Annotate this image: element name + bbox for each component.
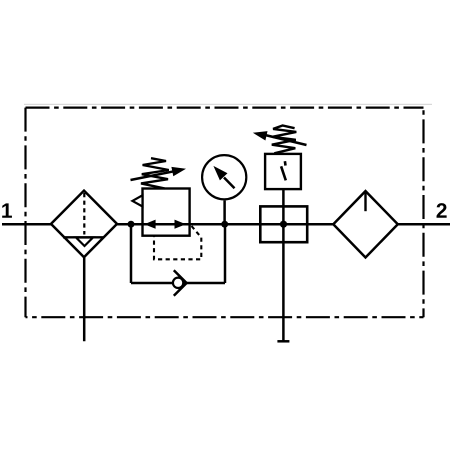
- regulator R1 vent triangle: [132, 195, 142, 206]
- check valve V1 ball: [173, 278, 183, 288]
- enclosure border left: [24, 108, 26, 318]
- regulator R1 flow arrow right: [175, 220, 186, 229]
- filter F1 separator chord: [63, 236, 104, 238]
- filter F1 separator triangle: [76, 238, 93, 247]
- enclosure border top shadow: [24, 103, 432, 105]
- filter F1 element dashed: [83, 193, 85, 235]
- wire regulator through to branch block: [143, 223, 261, 226]
- pressure switch S1 spring: [272, 126, 297, 154]
- wire port1 to filter: [2, 223, 51, 226]
- enclosure border bottom: [26, 316, 424, 318]
- regulator R1 adjustment arrow shaft: [131, 171, 175, 180]
- branch block body: [260, 206, 307, 242]
- bypass wire bottom: [131, 282, 225, 285]
- regulator R1 spring: [141, 158, 169, 188]
- pressure switch S1 adjustment arrow head: [253, 131, 268, 140]
- gauge G1 needle shaft: [224, 178, 235, 189]
- wire branch block to lubricator: [260, 223, 333, 226]
- bypass wire left down: [130, 224, 133, 283]
- enclosure border top: [26, 106, 424, 108]
- branch drain end bar: [277, 340, 289, 343]
- gauge G1 needle head: [213, 166, 227, 181]
- regulator R1 body: [143, 189, 190, 236]
- gauge G1 stem: [223, 200, 226, 224]
- lubricator L1 body: [333, 191, 398, 257]
- check valve V1 seat: [174, 270, 187, 295]
- port 1 label: [2, 203, 12, 217]
- lubricator L1 drip line: [364, 193, 366, 212]
- wire lubricator to port2: [398, 223, 450, 226]
- pressure switch S1 body: [265, 154, 301, 189]
- regulator R1 pilot dashed line: [154, 226, 201, 259]
- wire filter to regulator: [117, 223, 143, 226]
- regulator R1 adjustment arrow head: [171, 167, 186, 176]
- port 2 label: [437, 203, 447, 218]
- node A junction dot: [128, 221, 135, 228]
- regulator R1 flow arrow left: [144, 220, 155, 229]
- node B junction dot: [221, 221, 228, 228]
- node C junction dot: [280, 221, 287, 228]
- pressure switch S1 contact tick: [284, 161, 287, 165]
- filter F1 drain line: [83, 257, 86, 341]
- enclosure border right: [422, 108, 424, 318]
- gauge G1 dial: [202, 155, 246, 199]
- bypass wire right up: [224, 224, 227, 283]
- pressure switch S1 contact lever: [281, 166, 286, 180]
- filter F1 body: [51, 191, 117, 258]
- pressure switch S1 adjustment arrow shaft: [265, 135, 307, 145]
- branch block vertical line: [282, 189, 285, 341]
